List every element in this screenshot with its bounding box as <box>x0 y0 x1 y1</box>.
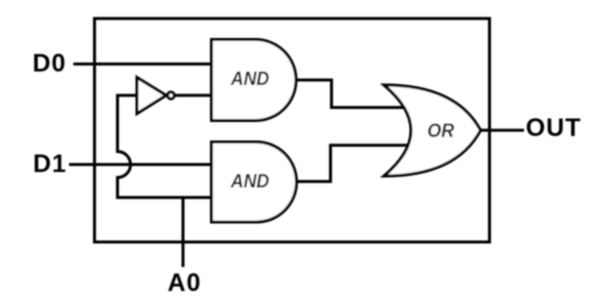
enclosure box <box>95 19 490 243</box>
svg-text:D1: D1 <box>33 150 67 178</box>
AND gate U1 <box>212 40 297 121</box>
wire AND U1 output to OR input <box>294 80 412 108</box>
svg-text:AND: AND <box>230 68 269 90</box>
svg-text:A0: A0 <box>168 269 202 297</box>
svg-text:D0: D0 <box>33 50 67 78</box>
svg-text:OUT: OUT <box>526 114 582 142</box>
inverter U3 bubble <box>168 92 175 99</box>
wire D1 input <box>69 163 213 166</box>
wire D0 input <box>73 63 213 66</box>
OR gate U4 <box>384 85 481 176</box>
wire inverter output to AND U1 <box>175 94 214 97</box>
inverter U3 triangle <box>137 78 166 114</box>
svg-text:OR: OR <box>427 120 454 142</box>
wire OUT <box>476 129 524 132</box>
AND gate U2 <box>212 142 297 222</box>
svg-text:AND: AND <box>230 170 269 192</box>
wire inverter input branch with hop over D1 <box>118 95 214 197</box>
wire A0 select vertical <box>182 196 185 267</box>
wire AND U2 output to OR input <box>294 145 412 181</box>
